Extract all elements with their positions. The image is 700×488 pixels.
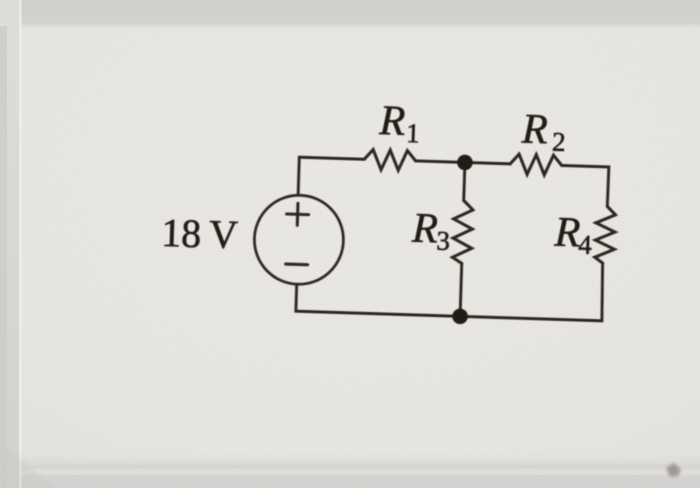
svg-text:R: R: [410, 206, 438, 253]
wire R4 to bottom-right corner to node B: [460, 259, 604, 321]
svg-text:3: 3: [436, 226, 450, 256]
svg-text:R: R: [520, 107, 548, 154]
resistor R4: [595, 206, 616, 263]
mouse cursor smudge: [666, 463, 681, 477]
node B junction dot: [452, 308, 468, 324]
voltage source circle: [253, 194, 345, 286]
wire R3 to node B: [460, 263, 462, 316]
wire source top to top-left corner: [298, 157, 364, 197]
svg-text:R: R: [378, 98, 406, 145]
minus sign: [286, 263, 308, 267]
wire node B to bottom-left corner up to source bottom: [296, 284, 461, 316]
wire R1 to node A: [416, 161, 465, 163]
svg-text:4: 4: [578, 229, 593, 259]
resistor R2: [510, 154, 562, 176]
svg-text:18 V: 18 V: [161, 210, 239, 257]
resistor R3: [452, 200, 473, 264]
svg-text:R: R: [553, 210, 581, 257]
plus sign: [286, 203, 309, 226]
resistor R1: [364, 149, 416, 171]
wire node A down to R3: [464, 162, 465, 200]
node A junction dot: [457, 154, 473, 170]
wire node A to R2: [465, 162, 510, 163]
svg-text:2: 2: [552, 127, 566, 157]
wire R2 to top-right corner down to R4: [561, 165, 609, 206]
svg-text:1: 1: [406, 118, 420, 148]
